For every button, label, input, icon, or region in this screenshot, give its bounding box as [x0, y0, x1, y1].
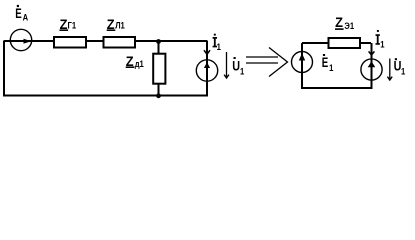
svg-text:1: 1 [380, 39, 385, 50]
svg-text:Э1: Э1 [344, 20, 354, 31]
svg-text:1: 1 [401, 66, 406, 77]
svg-text:д1: д1 [135, 59, 144, 70]
svg-text:E: E [322, 56, 329, 71]
svg-text:E: E [15, 7, 22, 22]
svg-text:1: 1 [217, 41, 222, 52]
svg-text:1: 1 [240, 66, 245, 77]
svg-text:1: 1 [329, 63, 334, 74]
svg-text:Г1: Г1 [68, 20, 77, 31]
svg-text:А: А [23, 12, 29, 23]
svg-text:U: U [232, 58, 240, 73]
svg-text:Л1: Л1 [115, 20, 125, 31]
svg-text:Z: Z [335, 15, 343, 30]
